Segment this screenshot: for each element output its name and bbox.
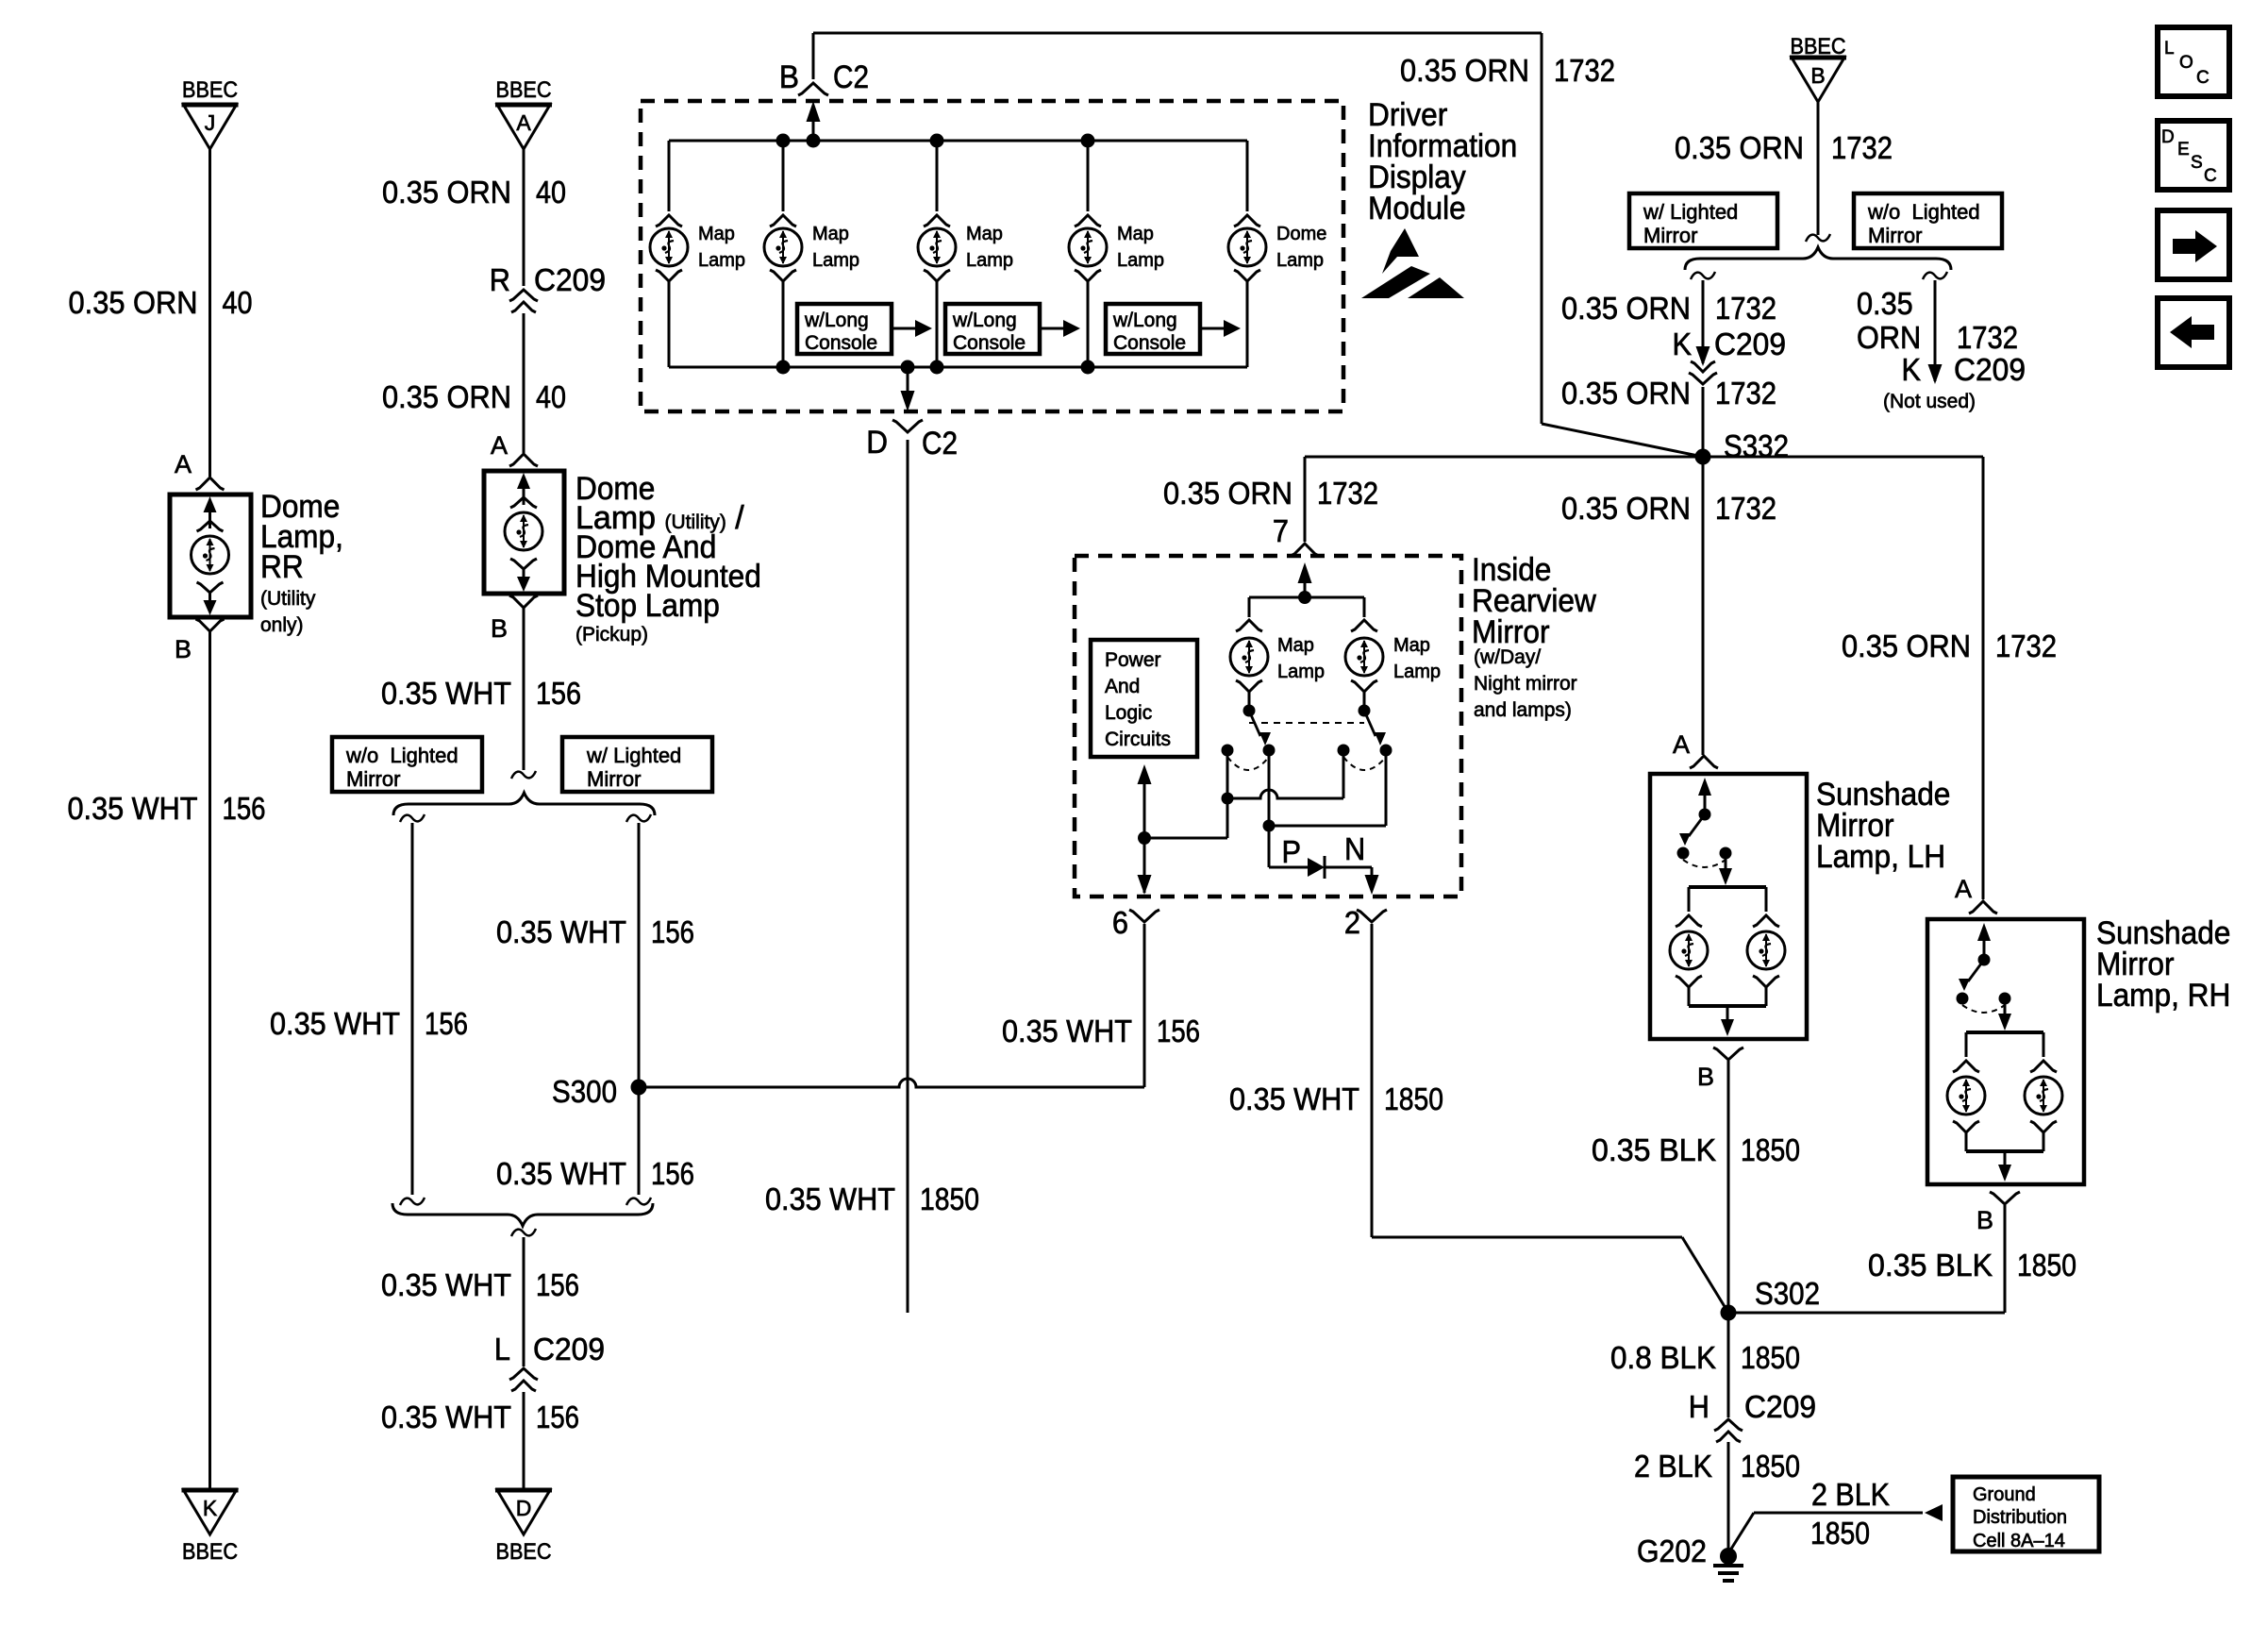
svg-text:0.35 ORN: 0.35 ORN bbox=[1675, 130, 1804, 165]
svg-text:C209: C209 bbox=[534, 262, 606, 297]
svg-text:Map: Map bbox=[1117, 224, 1154, 244]
svg-text:Lamp: Lamp bbox=[1277, 662, 1325, 682]
svg-text:C: C bbox=[2196, 68, 2210, 88]
svg-text:Distribution: Distribution bbox=[1973, 1507, 2067, 1528]
svg-text:BBEC: BBEC bbox=[182, 1539, 238, 1565]
svg-text:Lamp: Lamp bbox=[698, 250, 745, 271]
svg-text:D: D bbox=[516, 1496, 532, 1520]
svg-text:w/o Lighted: w/o Lighted bbox=[345, 744, 459, 767]
svg-text:R: R bbox=[490, 262, 510, 297]
svg-text:K: K bbox=[203, 1496, 218, 1520]
svg-text:1732: 1732 bbox=[1831, 130, 1893, 165]
svg-text:1850: 1850 bbox=[1741, 1449, 1800, 1484]
svg-text:0.35 WHT: 0.35 WHT bbox=[381, 1400, 511, 1434]
svg-text:Stop Lamp: Stop Lamp bbox=[575, 588, 720, 624]
svg-text:Map: Map bbox=[1277, 635, 1314, 656]
svg-text:Mirror: Mirror bbox=[346, 767, 400, 791]
svg-text:Logic: Logic bbox=[1105, 702, 1152, 724]
svg-text:0.35 ORN: 0.35 ORN bbox=[1561, 291, 1691, 326]
svg-text:Circuits: Circuits bbox=[1105, 729, 1171, 750]
svg-text:0.35 ORN: 0.35 ORN bbox=[1561, 491, 1691, 526]
svg-text:A: A bbox=[1673, 730, 1690, 759]
svg-text:0.35 WHT: 0.35 WHT bbox=[68, 791, 198, 826]
svg-text:156: 156 bbox=[536, 1267, 579, 1302]
svg-text:BBEC: BBEC bbox=[182, 77, 238, 103]
svg-text:K: K bbox=[1673, 327, 1693, 361]
svg-text:0.35 ORN: 0.35 ORN bbox=[69, 285, 198, 320]
svg-text:156: 156 bbox=[223, 791, 266, 826]
svg-text:1732: 1732 bbox=[1995, 629, 2057, 663]
svg-text:0.35 WHT: 0.35 WHT bbox=[381, 1267, 511, 1302]
svg-text:Console: Console bbox=[805, 332, 877, 354]
svg-text:S: S bbox=[2191, 153, 2203, 173]
svg-text:J: J bbox=[205, 110, 216, 135]
svg-text:Lamp: Lamp bbox=[1276, 250, 1324, 271]
svg-text:0.35 WHT: 0.35 WHT bbox=[496, 1156, 626, 1191]
svg-text:S332: S332 bbox=[1724, 428, 1789, 463]
svg-text:0.35 ORN: 0.35 ORN bbox=[382, 379, 511, 414]
svg-text:E: E bbox=[2177, 140, 2190, 159]
svg-text:0.35 WHT: 0.35 WHT bbox=[1229, 1081, 1359, 1116]
svg-text:w/ Lighted: w/ Lighted bbox=[1643, 200, 1738, 224]
svg-text:Mirror: Mirror bbox=[1472, 614, 1550, 650]
svg-text:156: 156 bbox=[536, 1400, 579, 1434]
svg-text:156: 156 bbox=[536, 676, 581, 711]
svg-text:Mirror: Mirror bbox=[1868, 224, 1922, 247]
svg-text:1850: 1850 bbox=[2017, 1248, 2076, 1282]
svg-text:C209: C209 bbox=[533, 1332, 605, 1366]
svg-text:Lamp, LH: Lamp, LH bbox=[1816, 839, 1945, 875]
svg-text:Lamp: Lamp bbox=[966, 250, 1013, 271]
svg-text:1732: 1732 bbox=[1715, 291, 1776, 326]
svg-text:2: 2 bbox=[1344, 905, 1360, 940]
svg-text:G202: G202 bbox=[1637, 1534, 1707, 1568]
svg-text:Module: Module bbox=[1368, 191, 1466, 226]
svg-text:(w/Day/: (w/Day/ bbox=[1474, 646, 1541, 668]
svg-text:6: 6 bbox=[1112, 905, 1128, 940]
svg-text:Mirror: Mirror bbox=[1643, 224, 1697, 247]
svg-text:1850: 1850 bbox=[920, 1182, 979, 1216]
svg-text:K: K bbox=[1902, 352, 1922, 387]
svg-text:B: B bbox=[1976, 1206, 1993, 1234]
svg-text:0.35 ORN: 0.35 ORN bbox=[1561, 376, 1691, 411]
svg-text:Map: Map bbox=[1393, 635, 1430, 656]
svg-text:BBEC: BBEC bbox=[496, 77, 552, 103]
svg-text:0.35 ORN: 0.35 ORN bbox=[1842, 629, 1971, 663]
svg-text:Lamp, RH: Lamp, RH bbox=[2096, 978, 2230, 1014]
svg-text:N: N bbox=[1344, 831, 1365, 866]
svg-text:O: O bbox=[2179, 53, 2193, 73]
svg-text:0.35 WHT: 0.35 WHT bbox=[270, 1006, 400, 1041]
svg-text:and lamps): and lamps) bbox=[1474, 699, 1572, 721]
svg-text:2 BLK: 2 BLK bbox=[1634, 1449, 1712, 1484]
svg-text:40: 40 bbox=[536, 175, 566, 210]
svg-text:40: 40 bbox=[536, 379, 566, 414]
svg-text:C209: C209 bbox=[1714, 327, 1786, 361]
svg-text:B: B bbox=[491, 614, 508, 643]
svg-text:(Utility: (Utility bbox=[260, 588, 316, 610]
svg-text:156: 156 bbox=[651, 1156, 694, 1191]
svg-text:0.8 BLK: 0.8 BLK bbox=[1610, 1340, 1716, 1375]
svg-text:L: L bbox=[2164, 39, 2175, 59]
svg-text:(Pickup): (Pickup) bbox=[575, 624, 648, 645]
svg-text:Cell 8A–14: Cell 8A–14 bbox=[1973, 1531, 2065, 1551]
svg-text:2 BLK: 2 BLK bbox=[1811, 1477, 1890, 1512]
svg-text:0.35 WHT: 0.35 WHT bbox=[381, 676, 511, 711]
svg-text:Ground: Ground bbox=[1973, 1484, 2036, 1505]
svg-text:B: B bbox=[175, 635, 192, 663]
svg-text:w/Long: w/Long bbox=[804, 310, 869, 331]
svg-text:w/ Lighted: w/ Lighted bbox=[586, 744, 681, 767]
svg-text:0.35 BLK: 0.35 BLK bbox=[1592, 1132, 1716, 1167]
svg-text:0.35 ORN: 0.35 ORN bbox=[1400, 53, 1529, 88]
svg-text:Map: Map bbox=[966, 224, 1003, 244]
svg-text:S302: S302 bbox=[1755, 1276, 1820, 1311]
svg-text:1850: 1850 bbox=[1741, 1132, 1800, 1167]
svg-text:D: D bbox=[2161, 127, 2175, 147]
svg-text:Map: Map bbox=[698, 224, 735, 244]
svg-text:ORN: ORN bbox=[1857, 320, 1921, 355]
svg-text:And: And bbox=[1105, 676, 1140, 697]
svg-text:B: B bbox=[1697, 1063, 1714, 1091]
svg-text:C209: C209 bbox=[1954, 352, 2026, 387]
svg-text:RR: RR bbox=[260, 549, 304, 585]
svg-text:0.35 ORN: 0.35 ORN bbox=[382, 175, 511, 210]
svg-text:0.35 ORN: 0.35 ORN bbox=[1163, 476, 1292, 511]
svg-text:Night mirror: Night mirror bbox=[1474, 673, 1577, 695]
svg-text:A: A bbox=[516, 110, 531, 135]
svg-text:w/Long: w/Long bbox=[1112, 310, 1177, 331]
svg-text:0.35 WHT: 0.35 WHT bbox=[496, 914, 626, 949]
svg-text:C: C bbox=[2204, 166, 2217, 186]
svg-text:1850: 1850 bbox=[1384, 1081, 1443, 1116]
svg-text:A: A bbox=[175, 450, 192, 478]
svg-text:156: 156 bbox=[651, 914, 694, 949]
svg-text:1850: 1850 bbox=[1741, 1340, 1800, 1375]
svg-text:Mirror: Mirror bbox=[587, 767, 641, 791]
svg-text:only): only) bbox=[260, 614, 304, 636]
svg-text:1732: 1732 bbox=[1957, 320, 2018, 355]
svg-text:(Not used): (Not used) bbox=[1883, 391, 1976, 412]
svg-text:S300: S300 bbox=[552, 1074, 617, 1109]
svg-text:Console: Console bbox=[953, 332, 1026, 354]
svg-text:C2: C2 bbox=[922, 426, 958, 461]
svg-text:0.35 WHT: 0.35 WHT bbox=[1002, 1014, 1132, 1048]
svg-text:1732: 1732 bbox=[1715, 491, 1776, 526]
svg-text:156: 156 bbox=[1157, 1014, 1200, 1048]
svg-text:B: B bbox=[779, 59, 799, 95]
svg-text:H: H bbox=[1689, 1389, 1709, 1424]
svg-text:7: 7 bbox=[1273, 513, 1289, 548]
svg-text:Lamp: Lamp bbox=[812, 250, 859, 271]
svg-text:0.35 BLK: 0.35 BLK bbox=[1868, 1248, 1993, 1282]
svg-text:Lamp: Lamp bbox=[1393, 662, 1441, 682]
svg-text:BBEC: BBEC bbox=[496, 1539, 552, 1565]
svg-text:Dome: Dome bbox=[1276, 224, 1326, 244]
svg-text:1850: 1850 bbox=[1810, 1516, 1870, 1551]
svg-text:156: 156 bbox=[425, 1006, 468, 1041]
svg-text:Map: Map bbox=[812, 224, 849, 244]
svg-text:0.35: 0.35 bbox=[1857, 286, 1913, 321]
svg-text:1732: 1732 bbox=[1317, 476, 1378, 511]
svg-text:D: D bbox=[866, 425, 888, 461]
svg-text:Console: Console bbox=[1113, 332, 1186, 354]
svg-text:C2: C2 bbox=[833, 59, 869, 95]
svg-text:B: B bbox=[1810, 63, 1825, 88]
svg-text:1732: 1732 bbox=[1554, 53, 1615, 88]
svg-text:Lamp: Lamp bbox=[1117, 250, 1164, 271]
svg-text:C209: C209 bbox=[1744, 1389, 1816, 1424]
svg-text:P: P bbox=[1282, 834, 1302, 869]
svg-text:1732: 1732 bbox=[1715, 376, 1776, 411]
svg-text:0.35 WHT: 0.35 WHT bbox=[765, 1182, 895, 1216]
svg-text:w/o Lighted: w/o Lighted bbox=[1867, 200, 1980, 224]
svg-text:Power: Power bbox=[1105, 649, 1161, 671]
svg-text:40: 40 bbox=[223, 285, 253, 320]
svg-text:L: L bbox=[494, 1332, 510, 1366]
svg-text:A: A bbox=[491, 431, 508, 460]
svg-text:w/Long: w/Long bbox=[952, 310, 1017, 331]
svg-text:A: A bbox=[1955, 875, 1972, 903]
